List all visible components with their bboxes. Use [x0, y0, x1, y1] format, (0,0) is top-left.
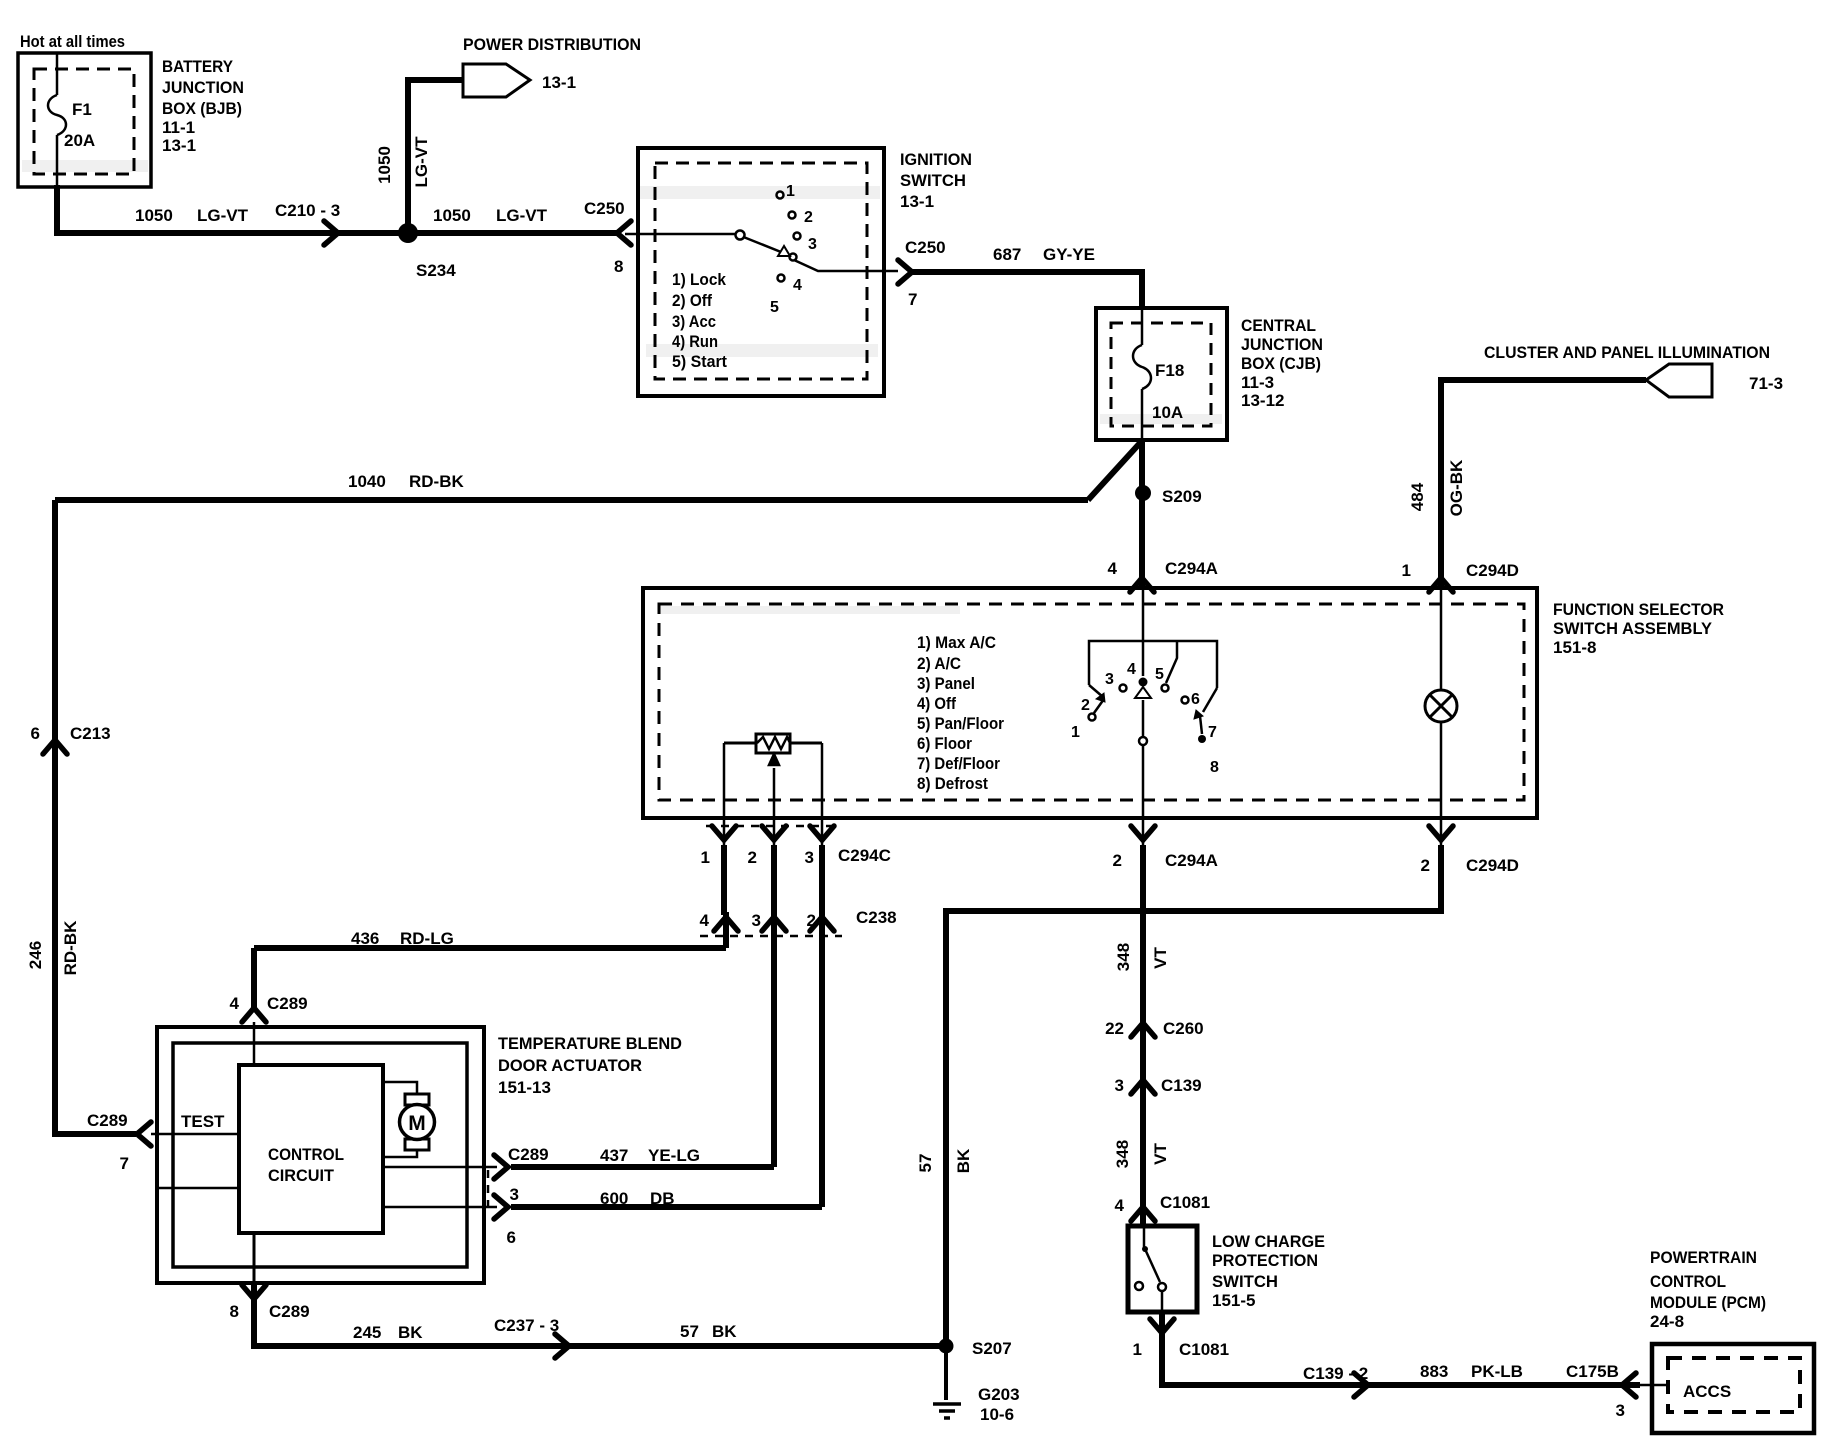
svg-text:3: 3 [1115, 1076, 1124, 1095]
svg-text:57: 57 [916, 1154, 935, 1173]
svg-text:3: 3 [805, 848, 814, 867]
svg-text:BK: BK [954, 1148, 973, 1173]
svg-text:CONTROL: CONTROL [1650, 1272, 1726, 1291]
svg-text:3) Panel: 3) Panel [917, 674, 975, 693]
svg-text:SWITCH ASSEMBLY: SWITCH ASSEMBLY [1553, 619, 1713, 638]
svg-text:2: 2 [748, 848, 757, 867]
svg-text:2: 2 [807, 911, 816, 930]
svg-text:C1081: C1081 [1179, 1340, 1229, 1359]
svg-text:5) Start: 5) Start [672, 352, 727, 371]
svg-text:687: 687 [993, 245, 1021, 264]
svg-text:6: 6 [31, 724, 40, 743]
svg-text:C250: C250 [584, 199, 625, 218]
svg-text:484: 484 [1408, 482, 1427, 511]
svg-text:LG-VT: LG-VT [412, 136, 431, 188]
svg-text:IGNITION: IGNITION [900, 150, 972, 169]
svg-text:600: 600 [600, 1189, 628, 1208]
svg-text:7: 7 [1208, 724, 1217, 741]
svg-text:13-12: 13-12 [1241, 391, 1284, 410]
svg-text:CONTROL: CONTROL [268, 1145, 344, 1164]
svg-text:5: 5 [1155, 666, 1164, 683]
svg-text:10A: 10A [1152, 403, 1183, 422]
svg-text:C213: C213 [70, 724, 111, 743]
svg-text:C294A: C294A [1165, 559, 1218, 578]
svg-text:22: 22 [1105, 1019, 1124, 1038]
svg-text:11-3: 11-3 [1241, 373, 1274, 392]
svg-text:PROTECTION: PROTECTION [1212, 1251, 1318, 1270]
svg-text:4: 4 [230, 994, 240, 1013]
svg-text:C238: C238 [856, 908, 897, 927]
svg-text:F18: F18 [1155, 361, 1184, 380]
svg-text:GY-YE: GY-YE [1043, 245, 1095, 264]
svg-text:4: 4 [1115, 1196, 1125, 1215]
svg-text:POWERTRAIN: POWERTRAIN [1650, 1248, 1757, 1267]
svg-text:1: 1 [1402, 561, 1411, 580]
svg-text:C289: C289 [87, 1111, 128, 1130]
svg-text:6: 6 [1191, 691, 1200, 708]
svg-text:FUNCTION SELECTOR: FUNCTION SELECTOR [1553, 600, 1724, 619]
svg-text:S207: S207 [972, 1339, 1012, 1358]
svg-text:C294D: C294D [1466, 856, 1519, 875]
svg-text:C210 - 3: C210 - 3 [275, 201, 340, 220]
svg-text:8) Defrost: 8) Defrost [917, 774, 988, 793]
svg-text:3: 3 [1105, 671, 1114, 688]
svg-text:7: 7 [120, 1154, 129, 1173]
svg-text:348: 348 [1113, 1140, 1132, 1168]
svg-text:C289: C289 [508, 1145, 549, 1164]
svg-text:TEST: TEST [181, 1112, 225, 1131]
svg-text:C289: C289 [269, 1302, 310, 1321]
svg-text:5: 5 [770, 299, 779, 316]
svg-text:BOX (BJB): BOX (BJB) [162, 99, 242, 118]
svg-text:1: 1 [1133, 1340, 1142, 1359]
svg-text:G203: G203 [978, 1385, 1020, 1404]
svg-text:245: 245 [353, 1323, 381, 1342]
svg-text:JUNCTION: JUNCTION [162, 78, 244, 97]
svg-text:PK-LB: PK-LB [1471, 1362, 1523, 1381]
svg-text:2) A/C: 2) A/C [917, 654, 961, 673]
svg-text:2: 2 [1421, 856, 1430, 875]
svg-text:8: 8 [230, 1302, 239, 1321]
svg-text:71-3: 71-3 [1749, 374, 1783, 393]
svg-text:BK: BK [398, 1323, 423, 1342]
svg-text:C289: C289 [267, 994, 308, 1013]
svg-text:151-13: 151-13 [498, 1078, 551, 1097]
svg-text:3: 3 [510, 1185, 519, 1204]
svg-text:437: 437 [600, 1146, 628, 1165]
svg-text:1: 1 [701, 848, 710, 867]
svg-text:C294A: C294A [1165, 851, 1218, 870]
svg-text:BOX (CJB): BOX (CJB) [1241, 354, 1321, 373]
svg-text:RD-LG: RD-LG [400, 929, 454, 948]
svg-text:24-8: 24-8 [1650, 1312, 1684, 1331]
svg-text:C139: C139 [1161, 1076, 1202, 1095]
svg-text:4: 4 [700, 911, 710, 930]
svg-text:S209: S209 [1162, 487, 1202, 506]
svg-text:3) Acc: 3) Acc [672, 312, 716, 331]
svg-text:246: 246 [26, 941, 45, 969]
svg-text:LOW CHARGE: LOW CHARGE [1212, 1232, 1325, 1251]
svg-text:13-1: 13-1 [162, 136, 196, 155]
svg-text:SWITCH: SWITCH [1212, 1272, 1278, 1291]
svg-text:883: 883 [1420, 1362, 1448, 1381]
svg-text:YE-LG: YE-LG [648, 1146, 700, 1165]
svg-text:1) Max A/C: 1) Max A/C [917, 633, 996, 652]
svg-text:20A: 20A [64, 131, 95, 150]
svg-text:1050: 1050 [135, 206, 173, 225]
svg-text:13-1: 13-1 [542, 73, 576, 92]
svg-text:CLUSTER AND PANEL ILLUMINATION: CLUSTER AND PANEL ILLUMINATION [1484, 343, 1770, 362]
svg-text:151-8: 151-8 [1553, 638, 1596, 657]
svg-text:C1081: C1081 [1160, 1193, 1210, 1212]
svg-text:BK: BK [712, 1322, 737, 1341]
svg-text:10-6: 10-6 [980, 1405, 1014, 1424]
svg-text:C139 - 2: C139 - 2 [1303, 1364, 1368, 1383]
svg-text:DOOR ACTUATOR: DOOR ACTUATOR [498, 1056, 642, 1075]
svg-text:8: 8 [1210, 759, 1219, 776]
svg-text:C237 - 3: C237 - 3 [494, 1316, 559, 1335]
svg-text:ACCS: ACCS [1683, 1382, 1731, 1401]
svg-text:3: 3 [752, 911, 761, 930]
svg-text:C294D: C294D [1466, 561, 1519, 580]
svg-text:1: 1 [786, 183, 795, 200]
svg-text:1050: 1050 [375, 146, 394, 184]
svg-text:2: 2 [1113, 851, 1122, 870]
svg-text:LG-VT: LG-VT [197, 206, 249, 225]
svg-text:RD-BK: RD-BK [61, 920, 80, 975]
svg-text:POWER DISTRIBUTION: POWER DISTRIBUTION [463, 35, 641, 54]
svg-text:436: 436 [351, 929, 379, 948]
svg-text:6) Floor: 6) Floor [917, 734, 972, 753]
svg-text:1040: 1040 [348, 472, 386, 491]
svg-text:6: 6 [507, 1228, 516, 1247]
svg-text:3: 3 [808, 236, 817, 253]
svg-text:2: 2 [804, 209, 813, 226]
svg-text:CENTRAL: CENTRAL [1241, 316, 1316, 335]
svg-text:7) Def/Floor: 7) Def/Floor [917, 754, 1000, 773]
svg-text:8: 8 [614, 257, 623, 276]
svg-text:4: 4 [1127, 661, 1136, 678]
svg-text:C250: C250 [905, 238, 946, 257]
svg-text:MODULE (PCM): MODULE (PCM) [1650, 1293, 1766, 1312]
svg-text:JUNCTION: JUNCTION [1241, 335, 1323, 354]
svg-text:4: 4 [1108, 559, 1118, 578]
svg-text:7: 7 [908, 290, 917, 309]
svg-text:2: 2 [1081, 697, 1090, 714]
svg-text:348: 348 [1114, 943, 1133, 971]
svg-text:3: 3 [1616, 1401, 1625, 1420]
svg-text:VT: VT [1151, 1143, 1170, 1165]
svg-text:1: 1 [1071, 724, 1080, 741]
svg-text:13-1: 13-1 [900, 192, 934, 211]
svg-text:C260: C260 [1163, 1019, 1204, 1038]
svg-text:1) Lock: 1) Lock [672, 270, 726, 289]
svg-text:11-1: 11-1 [162, 118, 195, 137]
svg-text:4) Run: 4) Run [672, 332, 718, 351]
svg-text:1050: 1050 [433, 206, 471, 225]
svg-text:151-5: 151-5 [1212, 1291, 1255, 1310]
svg-text:BATTERY: BATTERY [162, 57, 234, 76]
svg-text:5) Pan/Floor: 5) Pan/Floor [917, 714, 1004, 733]
svg-text:DB: DB [650, 1189, 675, 1208]
svg-text:Hot at all times: Hot at all times [20, 32, 125, 51]
svg-text:S234: S234 [416, 261, 456, 280]
svg-text:57: 57 [680, 1322, 699, 1341]
svg-text:RD-BK: RD-BK [409, 472, 464, 491]
svg-text:4: 4 [793, 277, 802, 294]
svg-text:SWITCH: SWITCH [900, 171, 966, 190]
svg-text:C175B: C175B [1566, 1362, 1619, 1381]
svg-text:2) Off: 2) Off [672, 291, 712, 310]
svg-text:OG-BK: OG-BK [1447, 459, 1466, 516]
svg-text:4) Off: 4) Off [917, 694, 956, 713]
svg-text:VT: VT [1151, 947, 1170, 969]
svg-text:C294C: C294C [838, 846, 891, 865]
svg-text:F1: F1 [72, 100, 92, 119]
svg-text:CIRCUIT: CIRCUIT [268, 1166, 335, 1185]
svg-text:LG-VT: LG-VT [496, 206, 548, 225]
svg-text:TEMPERATURE BLEND: TEMPERATURE BLEND [498, 1034, 682, 1053]
svg-text:M: M [408, 1112, 426, 1135]
